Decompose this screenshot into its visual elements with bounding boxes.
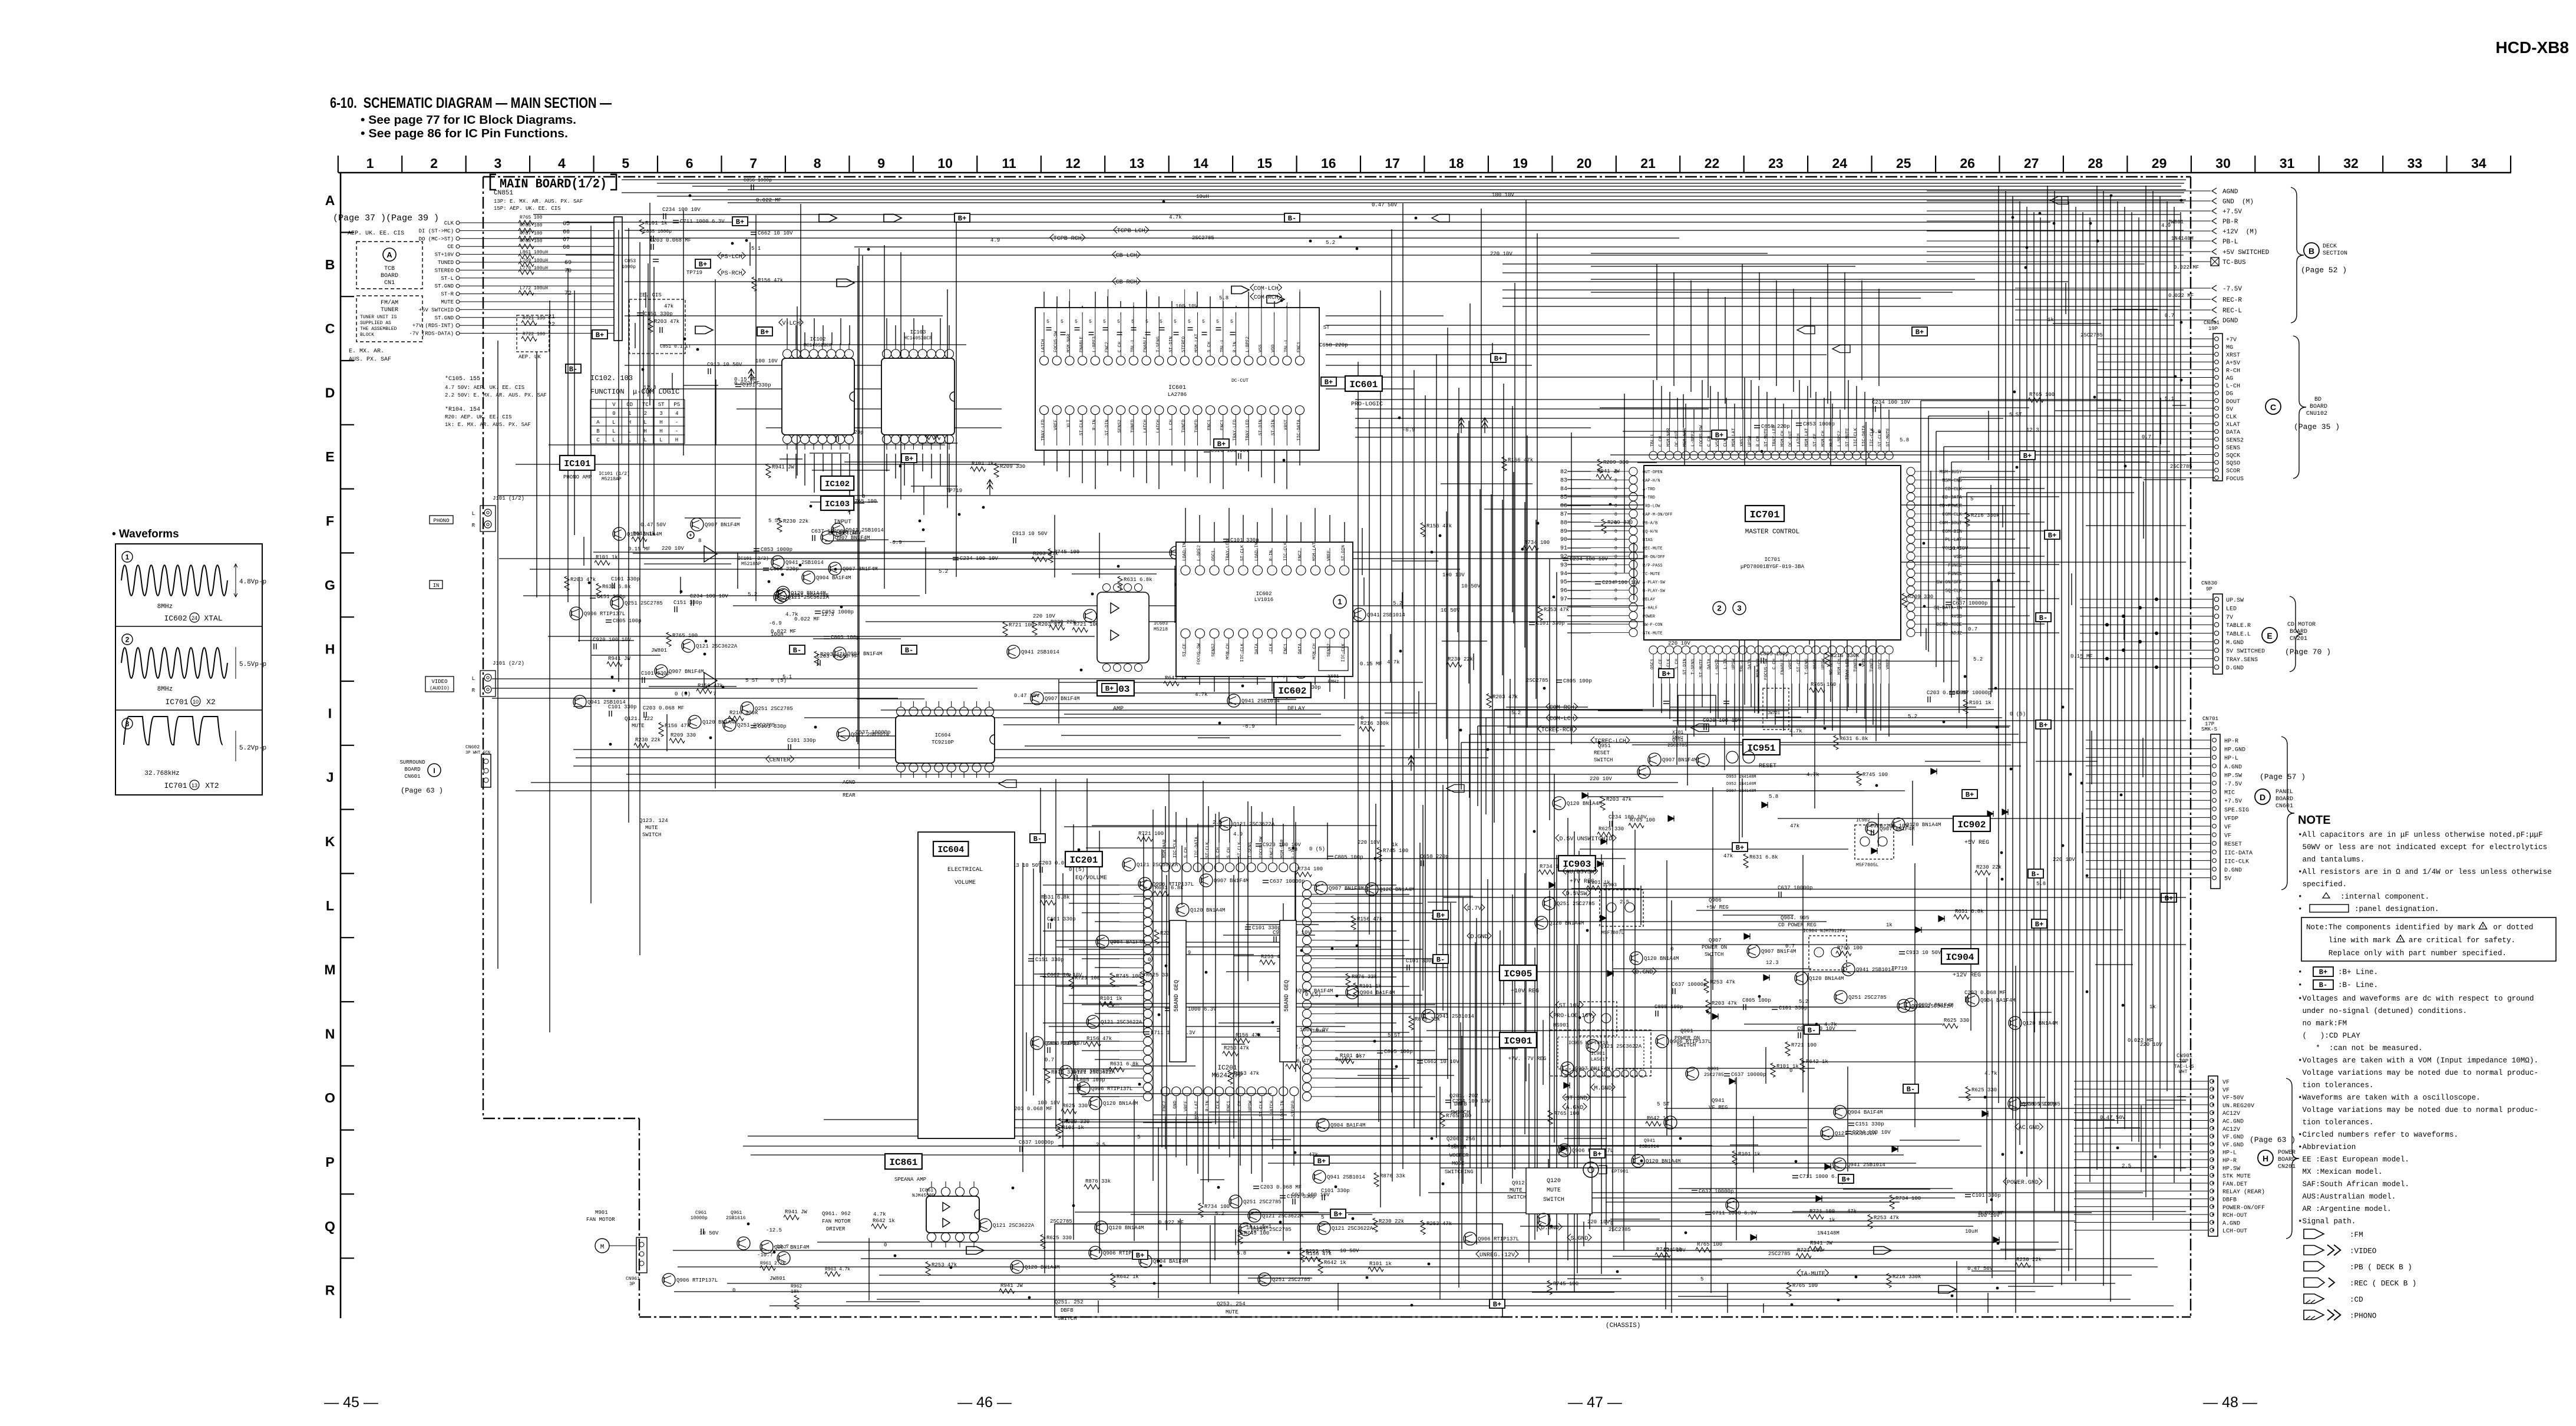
signal arrow bbox=[1432, 214, 1449, 222]
svg-text:•Waveforms are taken with a os: •Waveforms are taken with a oscilloscope… bbox=[2298, 1094, 2481, 1102]
svg-text:MIC: MIC bbox=[2224, 790, 2235, 797]
net label S.GND bbox=[1567, 1234, 1591, 1242]
junction node bbox=[2120, 794, 2123, 797]
svg-text:Q251 2SC2785: Q251 2SC2785 bbox=[1243, 1199, 1282, 1205]
svg-text:ST-DIN: ST-DIN bbox=[1272, 420, 1276, 435]
svg-text:5 ST: 5 ST bbox=[768, 518, 781, 524]
svg-text:R642 1k: R642 1k bbox=[1806, 1059, 1828, 1065]
resistor bbox=[1032, 557, 1047, 562]
svg-text:Q904 BA1F4M: Q904 BA1F4M bbox=[1360, 990, 1395, 996]
junction node bbox=[1356, 247, 1359, 250]
svg-text:VDD: VDD bbox=[1862, 659, 1867, 667]
svg-text:15P: AEP. UK. EE. CIS: 15P: AEP. UK. EE. CIS bbox=[494, 206, 560, 212]
svg-text:R101 1k: R101 1k bbox=[645, 220, 668, 226]
transistor bbox=[1842, 963, 1855, 976]
svg-text:ENC1: ENC1 bbox=[1220, 420, 1225, 431]
transistor bbox=[573, 695, 586, 708]
svg-text:17: 17 bbox=[1385, 156, 1400, 171]
transistor bbox=[1219, 817, 1232, 830]
svg-text:1k: E. MX. AR. AUS. PX. SAF: 1k: E. MX. AR. AUS. PX. SAF bbox=[445, 422, 531, 428]
transistor bbox=[1170, 546, 1183, 559]
svg-text:EPT901: EPT901 bbox=[1611, 1169, 1629, 1174]
svg-text::PB ( DECK B ): :PB ( DECK B ) bbox=[2350, 1263, 2412, 1272]
resistor bbox=[1359, 727, 1375, 731]
svg-text:COM-CLK: COM-CLK bbox=[1942, 512, 1962, 517]
marker B+ bbox=[1214, 439, 1229, 448]
svg-text:REAR: REAR bbox=[843, 793, 856, 798]
svg-text:PS-LCH: PS-LCH bbox=[721, 254, 742, 260]
resistor bbox=[1140, 972, 1145, 986]
svg-text:2SB1014: 2SB1014 bbox=[1639, 1144, 1659, 1150]
svg-text:H: H bbox=[659, 420, 662, 425]
NOTE block bbox=[2298, 814, 2556, 1226]
svg-text:•Voltages and waveforms are dc: •Voltages and waveforms are dc with resp… bbox=[2298, 995, 2534, 1003]
capacitor bbox=[1848, 1123, 1854, 1124]
junction node bbox=[2039, 212, 2042, 215]
junction node bbox=[689, 194, 692, 197]
junction node bbox=[1923, 542, 1926, 545]
capacitor bbox=[953, 557, 959, 558]
resistor bbox=[1296, 872, 1312, 877]
svg-text:Q121 2SC3622A: Q121 2SC3622A bbox=[1332, 1226, 1373, 1232]
svg-text:RELAY (REAR): RELAY (REAR) bbox=[2222, 1189, 2265, 1196]
svg-text:B: B bbox=[596, 428, 600, 434]
svg-text:•: • bbox=[2298, 893, 2303, 901]
svg-text:B+: B+ bbox=[1662, 670, 1670, 678]
transistor bbox=[802, 571, 815, 584]
svg-text:R216 330k: R216 330k bbox=[1971, 513, 2000, 519]
svg-text:VF.GND: VF.GND bbox=[2222, 1142, 2244, 1148]
signal arrow bbox=[1691, 724, 1709, 732]
svg-text:AUS. PX. SAF: AUS. PX. SAF bbox=[349, 356, 391, 363]
svg-text:SURROUND: SURROUND bbox=[399, 760, 425, 765]
svg-text:COM-LCH: COM-LCH bbox=[1254, 286, 1279, 292]
resistor bbox=[659, 722, 663, 737]
signal arrow bbox=[1267, 296, 1284, 303]
svg-text:C805 100p: C805 100p bbox=[1384, 1049, 1413, 1055]
resistor bbox=[728, 716, 744, 721]
svg-text:TBL-L: TBL-L bbox=[1131, 339, 1135, 352]
svg-text:IC905: IC905 bbox=[1504, 969, 1532, 979]
svg-text:ENC1: ENC1 bbox=[1284, 643, 1289, 655]
svg-text:R631 6.8k: R631 6.8k bbox=[1955, 909, 1984, 915]
wire bundle bbox=[643, 186, 2047, 1308]
svg-text:5.2: 5.2 bbox=[939, 569, 948, 575]
signal arrow bbox=[1446, 785, 1464, 793]
junction node bbox=[1063, 358, 1066, 361]
svg-text:J101 (2/2): J101 (2/2) bbox=[493, 661, 524, 666]
main board label bbox=[490, 174, 616, 192]
svg-text:VREF: VREF bbox=[1327, 550, 1332, 561]
svg-text:B+: B+ bbox=[1916, 328, 1924, 336]
transistor bbox=[1010, 1260, 1023, 1273]
svg-text:DC-CUT: DC-CUT bbox=[1675, 430, 1679, 447]
svg-text:C151 330p: C151 330p bbox=[1035, 957, 1064, 963]
transistor bbox=[662, 1273, 675, 1286]
wire bundle bbox=[533, 180, 2186, 601]
svg-text:0.7: 0.7 bbox=[2165, 313, 2174, 319]
svg-text:LA5617: LA5617 bbox=[1591, 1057, 1608, 1062]
page number 48 bbox=[2203, 1394, 2257, 1411]
junction node bbox=[1012, 1187, 1015, 1190]
svg-text:5V: 5V bbox=[2226, 407, 2233, 413]
resistor bbox=[1597, 832, 1613, 837]
svg-text:0.022 MF: 0.022 MF bbox=[794, 616, 820, 622]
svg-text:Q901: Q901 bbox=[1708, 1067, 1719, 1072]
svg-text:IC701: IC701 bbox=[164, 781, 187, 790]
signal arrow bbox=[1797, 326, 1815, 334]
wire bundle bbox=[787, 318, 2059, 633]
svg-text:R203 47k: R203 47k bbox=[1606, 797, 1632, 803]
svg-text::B- Line.: :B- Line. bbox=[2338, 981, 2378, 989]
svg-text:C101 330p: C101 330p bbox=[1406, 958, 1435, 964]
svg-text:I: I bbox=[328, 705, 332, 721]
junction node bbox=[1616, 1270, 1619, 1273]
svg-text:B: B bbox=[325, 257, 335, 272]
svg-text:CN602: CN602 bbox=[465, 745, 480, 750]
svg-text:5: 5 bbox=[1089, 319, 1092, 325]
svg-text:C: C bbox=[325, 321, 335, 336]
resistor bbox=[1069, 975, 1074, 989]
main board outline bbox=[483, 177, 2191, 1317]
svg-text:TABLE.R: TABLE.R bbox=[2226, 623, 2251, 629]
svg-text:Q121 2SC3622A: Q121 2SC3622A bbox=[1835, 1131, 1877, 1137]
junction node bbox=[1685, 1232, 1687, 1234]
capacitor bbox=[1078, 404, 1084, 405]
svg-text:8MHz: 8MHz bbox=[157, 686, 173, 693]
svg-text:HP-L: HP-L bbox=[2224, 755, 2238, 762]
svg-text:B+: B+ bbox=[699, 260, 707, 269]
svg-text:ST.GND: ST.GND bbox=[435, 283, 454, 289]
svg-text:220 10V: 220 10V bbox=[662, 546, 684, 552]
svg-text:SENS2: SENS2 bbox=[2226, 437, 2244, 444]
wire bundle bbox=[1364, 484, 1588, 748]
marker B- bbox=[790, 645, 805, 655]
svg-text:47k: 47k bbox=[1847, 1209, 1857, 1214]
svg-text:POWER.GND: POWER.GND bbox=[2007, 1180, 2039, 1186]
resistor bbox=[1049, 625, 1065, 630]
marker B+ bbox=[1102, 684, 1117, 693]
svg-text:Q120 BN1A4M: Q120 BN1A4M bbox=[791, 590, 825, 596]
junction node bbox=[1679, 1137, 1682, 1140]
svg-text:CD-CLK: CD-CLK bbox=[1945, 487, 1962, 492]
svg-text:MSM-NAR: MSM-NAR bbox=[1162, 839, 1167, 858]
svg-text:Q907 BN1F4M: Q907 BN1F4M bbox=[1045, 696, 1079, 702]
svg-text:+7V (RDS-INT): +7V (RDS-INT) bbox=[412, 323, 454, 329]
marker B+ bbox=[1491, 354, 1506, 363]
net label TCPB-RCH bbox=[1050, 234, 1085, 242]
svg-text:PANEL: PANEL bbox=[2276, 789, 2293, 795]
svg-text:0: 0 bbox=[1614, 487, 1617, 492]
signal arrow bbox=[966, 1247, 984, 1255]
wire bundle bbox=[846, 1216, 1614, 1313]
svg-text:R156 47k: R156 47k bbox=[1426, 523, 1452, 529]
svg-text:C101 330p: C101 330p bbox=[787, 738, 816, 744]
svg-text:0: 0 bbox=[732, 1288, 735, 1293]
junction node bbox=[1192, 404, 1195, 407]
svg-text:R734 100: R734 100 bbox=[1895, 1196, 1921, 1201]
svg-text:C711 1000 6.3V: C711 1000 6.3V bbox=[680, 219, 725, 225]
svg-text:AVSS: AVSS bbox=[1951, 614, 1962, 619]
svg-text:5.1: 5.1 bbox=[782, 674, 792, 680]
resistor bbox=[1785, 1042, 1790, 1056]
signal arrow bbox=[792, 369, 798, 384]
resistor bbox=[1834, 735, 1838, 750]
svg-text:B+: B+ bbox=[1334, 1210, 1342, 1219]
svg-text:+12V (M): +12V (M) bbox=[2222, 229, 2257, 236]
resistor bbox=[607, 662, 622, 666]
svg-text:0.47 50V: 0.47 50V bbox=[640, 522, 666, 528]
svg-text:220 10V: 220 10V bbox=[1033, 613, 1055, 619]
capacitor bbox=[1946, 602, 1951, 603]
resistor bbox=[595, 560, 610, 565]
svg-text:OSC1: OSC1 bbox=[1211, 550, 1216, 561]
svg-text:13P: E. MX. AR. AUS. PX. SAF: 13P: E. MX. AR. AUS. PX. SAF bbox=[494, 199, 583, 204]
svg-text:B-: B- bbox=[1907, 1085, 1915, 1094]
transistor bbox=[1284, 984, 1297, 997]
svg-text:Q961. 962: Q961. 962 bbox=[822, 1211, 851, 1217]
svg-text:5: 5 bbox=[622, 156, 629, 171]
junction node bbox=[2025, 266, 2027, 269]
svg-text:FOCUS-SW: FOCUS-SW bbox=[1197, 643, 1202, 665]
junction node bbox=[1237, 367, 1240, 370]
svg-text:IC861: IC861 bbox=[889, 1157, 917, 1168]
svg-text:Voltage variations may be note: Voltage variations may be noted due to n… bbox=[2298, 1106, 2538, 1114]
svg-text:7: 7 bbox=[713, 691, 716, 697]
transistor bbox=[1031, 1037, 1043, 1049]
svg-text:12.3: 12.3 bbox=[2026, 427, 2039, 433]
net label PS-RCH bbox=[718, 269, 745, 277]
svg-text:XRST: XRST bbox=[1740, 435, 1745, 447]
svg-text:T-SENS: T-SENS bbox=[1805, 659, 1809, 675]
svg-text:0: 0 bbox=[1614, 512, 1617, 517]
svg-text:47k: 47k bbox=[1790, 823, 1799, 829]
junction node bbox=[747, 1223, 750, 1226]
net label TCREC-RCH bbox=[1538, 725, 1577, 734]
resistor bbox=[1680, 526, 1696, 530]
svg-text:SENS2: SENS2 bbox=[1118, 420, 1122, 433]
svg-text:PRO-LOG.10V: PRO-LOG.10V bbox=[1553, 1013, 1592, 1019]
svg-text:FOCUS-SW: FOCUS-SW bbox=[1259, 836, 1264, 858]
svg-text:MSM-NAR: MSM-NAR bbox=[1280, 839, 1285, 858]
wire bundle bbox=[1055, 515, 1362, 738]
svg-text:R216 330k: R216 330k bbox=[729, 710, 758, 716]
resistor bbox=[1655, 1253, 1670, 1257]
signal arrow bbox=[819, 214, 837, 222]
junction node bbox=[1373, 1040, 1376, 1043]
capacitor bbox=[674, 606, 675, 612]
resistor bbox=[1965, 512, 1970, 526]
svg-text:4.7k: 4.7k bbox=[1806, 772, 1819, 778]
svg-text:R734 100: R734 100 bbox=[1204, 1204, 1230, 1210]
net label ST.10V bbox=[1555, 1001, 1583, 1009]
net label A.GND bbox=[1563, 1103, 1587, 1111]
svg-text:Q941 2SB1014: Q941 2SB1014 bbox=[851, 732, 889, 738]
svg-text:2SC2785: 2SC2785 bbox=[1526, 678, 1548, 684]
svg-text:R209 330: R209 330 bbox=[671, 732, 696, 738]
IC603 label bbox=[1097, 681, 1134, 712]
svg-text:Q941 2SB1014: Q941 2SB1014 bbox=[1367, 612, 1405, 618]
junction node bbox=[722, 686, 725, 689]
junction node bbox=[1718, 482, 1721, 485]
resistor bbox=[970, 467, 986, 471]
svg-text:Q904 BA1F4M: Q904 BA1F4M bbox=[1980, 998, 2015, 1004]
resistor bbox=[1796, 1253, 1811, 1258]
svg-text:CNU102: CNU102 bbox=[2306, 411, 2327, 417]
resistor bbox=[1440, 1113, 1445, 1127]
svg-text:11: 11 bbox=[1002, 156, 1016, 171]
svg-text:MUTE: MUTE bbox=[645, 825, 658, 831]
transistor bbox=[1227, 694, 1240, 707]
svg-text:BOARD: BOARD bbox=[2310, 404, 2327, 410]
svg-text:VOL-LAT: VOL-LAT bbox=[1942, 546, 1962, 552]
svg-text:MSM-CH: MSM-CH bbox=[1781, 431, 1785, 447]
svg-text::B+ Line.: :B+ Line. bbox=[2338, 968, 2378, 976]
marker B- bbox=[1284, 213, 1300, 223]
resistor bbox=[1339, 1059, 1354, 1064]
svg-text:C203 0.068 MF: C203 0.068 MF bbox=[1260, 1184, 1302, 1190]
svg-text:+12V REG: +12V REG bbox=[1953, 972, 1981, 979]
transistor bbox=[837, 728, 850, 741]
resistor bbox=[1346, 973, 1350, 988]
svg-text:SWITCH: SWITCH bbox=[1451, 1110, 1469, 1115]
svg-text:0: 0 bbox=[1614, 520, 1617, 526]
junction node bbox=[1211, 616, 1214, 619]
svg-text:CN830: CN830 bbox=[2201, 580, 2217, 586]
svg-text:TP719: TP719 bbox=[946, 488, 962, 494]
signal arrow bbox=[884, 214, 901, 222]
svg-text:100 10V: 100 10V bbox=[1492, 192, 1514, 198]
svg-text:VF REG: VF REG bbox=[1709, 1105, 1728, 1111]
capacitor bbox=[1280, 1195, 1286, 1196]
svg-text:0.47 50V: 0.47 50V bbox=[1014, 693, 1040, 699]
svg-text:S CH: S CH bbox=[1227, 847, 1231, 858]
svg-text:JW801: JW801 bbox=[770, 1276, 785, 1282]
svg-text:R722 100: R722 100 bbox=[523, 332, 546, 337]
transistor bbox=[1239, 1223, 1252, 1236]
svg-text:R876 33k: R876 33k bbox=[1085, 1179, 1111, 1184]
svg-text:L861 100uH: L861 100uH bbox=[520, 250, 548, 255]
junction node bbox=[709, 737, 712, 740]
svg-text:UPSW: UPSW bbox=[1732, 659, 1736, 670]
capacitor bbox=[1650, 481, 1656, 483]
svg-text:9: 9 bbox=[877, 156, 885, 171]
chassis label bbox=[1606, 1322, 1640, 1329]
diode bbox=[1744, 933, 1750, 939]
marker B+ bbox=[1590, 1149, 1605, 1158]
resistor bbox=[1868, 1214, 1872, 1229]
svg-text::PHONO: :PHONO bbox=[2350, 1312, 2376, 1321]
transistor bbox=[1561, 1062, 1574, 1075]
svg-text:BOARD: BOARD bbox=[2276, 796, 2293, 803]
capacitor bbox=[1047, 1047, 1048, 1053]
svg-text:C805 100p: C805 100p bbox=[1742, 998, 1771, 1004]
svg-text:ST-DIN: ST-DIN bbox=[1259, 420, 1263, 435]
svg-text:A.GND: A.GND bbox=[2224, 764, 2242, 771]
svg-text:Q951: Q951 bbox=[1672, 738, 1683, 743]
svg-text:L: L bbox=[643, 420, 646, 425]
svg-text:IC103: IC103 bbox=[825, 500, 850, 509]
svg-text:1k: 1k bbox=[2047, 317, 2054, 323]
svg-text:1k: 1k bbox=[1886, 922, 1893, 928]
diode bbox=[1564, 1082, 1570, 1088]
svg-text:B-: B- bbox=[2032, 870, 2040, 879]
svg-text:CB-RCH: CB-RCH bbox=[1116, 279, 1137, 286]
svg-text:29: 29 bbox=[2152, 156, 2167, 171]
svg-text:LOAD-IN: LOAD-IN bbox=[1255, 542, 1260, 561]
svg-text:B+: B+ bbox=[1136, 1252, 1144, 1260]
svg-text:0: 0 bbox=[1360, 715, 1363, 721]
junction node bbox=[2093, 396, 2096, 399]
marker B+ bbox=[901, 454, 917, 463]
svg-text:NC: NC bbox=[1956, 597, 1962, 602]
signal arrow bbox=[748, 369, 754, 384]
svg-text:7V: 7V bbox=[2226, 615, 2233, 621]
resistor bbox=[1966, 1087, 1970, 1101]
capacitor bbox=[856, 736, 857, 742]
IC904 label bbox=[1941, 949, 1981, 979]
net label V-LCH bbox=[779, 319, 803, 327]
svg-text:Q253. 254: Q253. 254 bbox=[1217, 1301, 1246, 1307]
svg-text:0: 0 bbox=[1614, 504, 1617, 509]
svg-text:ST-MUTE: ST-MUTE bbox=[1764, 428, 1769, 447]
capacitor bbox=[1965, 996, 1966, 1002]
svg-text:LATCH: LATCH bbox=[1041, 339, 1046, 352]
svg-text:96: 96 bbox=[1560, 588, 1567, 595]
wire bundle bbox=[1044, 292, 2180, 1313]
resistor bbox=[1548, 1110, 1553, 1124]
junction node bbox=[1127, 429, 1130, 432]
junction node bbox=[588, 582, 591, 585]
junction node bbox=[2124, 465, 2127, 468]
svg-text:2: 2 bbox=[644, 411, 647, 417]
resistor bbox=[1421, 1220, 1425, 1234]
junction node bbox=[2000, 851, 2003, 854]
svg-text:DBFB: DBFB bbox=[1061, 1308, 1074, 1313]
svg-text:+7V REG: +7V REG bbox=[1570, 879, 1594, 885]
svg-text:VREF: VREF bbox=[1054, 420, 1059, 430]
svg-text:4.9: 4.9 bbox=[1103, 1001, 1112, 1006]
svg-text:4.7k: 4.7k bbox=[1984, 1071, 1997, 1077]
svg-text:ENC2: ENC2 bbox=[1298, 550, 1303, 561]
junction node bbox=[1439, 534, 1442, 537]
svg-text:24: 24 bbox=[1832, 156, 1848, 171]
svg-text:L: L bbox=[472, 511, 475, 517]
transistor bbox=[1176, 903, 1189, 916]
junction node bbox=[1984, 1096, 1987, 1099]
transistor bbox=[1353, 608, 1366, 621]
svg-text:X701: X701 bbox=[1672, 730, 1683, 735]
svg-text:0.022 MF: 0.022 MF bbox=[756, 197, 781, 203]
svg-text:AEP. UK. EE. CIS: AEP. UK. EE. CIS bbox=[348, 230, 404, 237]
svg-text:220 10V: 220 10V bbox=[1668, 641, 1690, 646]
svg-text:IIC-CLK: IIC-CLK bbox=[1240, 643, 1245, 662]
svg-text:-6.9: -6.9 bbox=[889, 540, 902, 546]
junction node bbox=[1272, 1021, 1274, 1024]
svg-text:0 (5): 0 (5) bbox=[2010, 711, 2026, 717]
svg-text:Q941 2SB1014: Q941 2SB1014 bbox=[587, 699, 626, 705]
svg-text:6-10. SCHEMATIC DIAGRAM — MAI: 6-10. SCHEMATIC DIAGRAM — MAIN SECTION — bbox=[330, 95, 612, 111]
svg-text:+7V. -7V REG: +7V. -7V REG bbox=[1508, 1056, 1547, 1062]
junction node bbox=[1335, 1186, 1337, 1189]
capacitor bbox=[817, 660, 818, 666]
svg-text:5.8: 5.8 bbox=[1237, 1250, 1246, 1256]
svg-text:R253 47k: R253 47k bbox=[1544, 607, 1569, 613]
resistor bbox=[1109, 1067, 1124, 1072]
svg-text:C913 10 50V: C913 10 50V bbox=[1012, 531, 1048, 537]
svg-text:10: 10 bbox=[193, 699, 199, 705]
svg-text:OSC1: OSC1 bbox=[1813, 659, 1818, 670]
